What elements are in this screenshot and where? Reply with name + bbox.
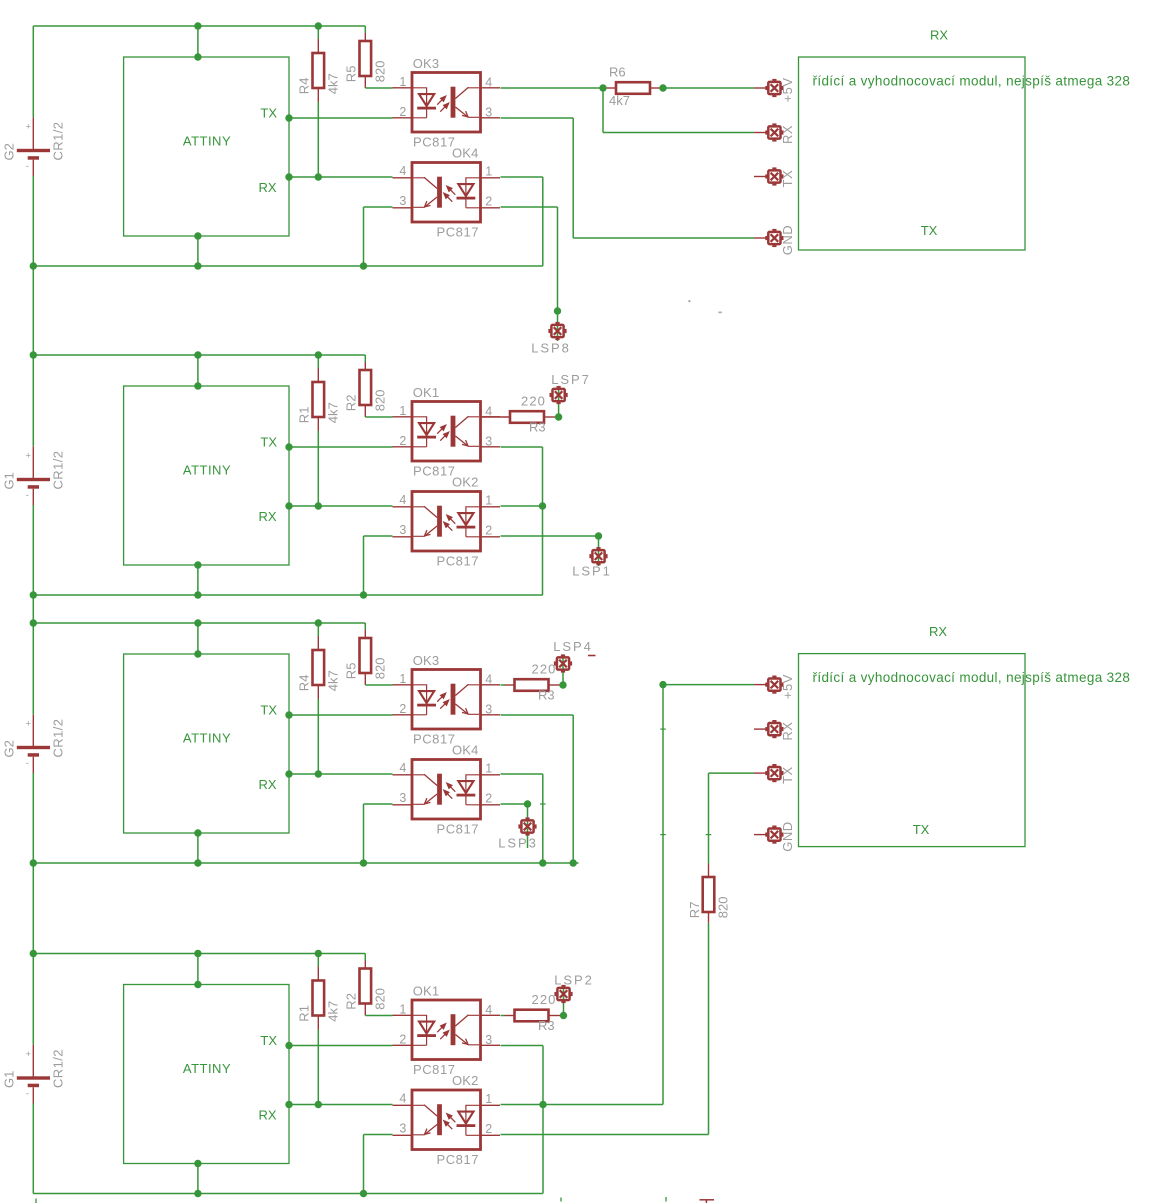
svg-text:ATTINY: ATTINY xyxy=(183,731,231,746)
svg-text:4k7: 4k7 xyxy=(325,402,340,423)
svg-text:820: 820 xyxy=(372,60,387,82)
svg-text:CR1/2: CR1/2 xyxy=(51,451,66,490)
svg-text:+: + xyxy=(26,1049,32,1060)
svg-text:RX: RX xyxy=(258,180,276,195)
svg-text:4: 4 xyxy=(485,672,492,686)
svg-text:3: 3 xyxy=(485,1033,492,1047)
svg-text:řídící a vyhodnocovací modul,: řídící a vyhodnocovací modul, nejspíš at… xyxy=(813,670,1131,685)
svg-text:1: 1 xyxy=(399,75,406,89)
svg-text:220: 220 xyxy=(532,662,557,677)
svg-text:TX: TX xyxy=(260,1033,277,1048)
svg-text:PC817: PC817 xyxy=(413,135,456,150)
svg-text:R2: R2 xyxy=(344,993,359,1010)
svg-text:R5: R5 xyxy=(344,663,359,680)
svg-text:R3: R3 xyxy=(538,1018,555,1033)
svg-text:RX: RX xyxy=(930,28,948,43)
svg-text:2: 2 xyxy=(485,523,492,537)
svg-text:+: + xyxy=(26,451,32,462)
svg-text:4: 4 xyxy=(399,1092,406,1106)
svg-text:820: 820 xyxy=(716,896,731,918)
svg-text:2: 2 xyxy=(485,1122,492,1136)
svg-text:OK3: OK3 xyxy=(413,56,440,71)
svg-text:TX: TX xyxy=(260,703,277,718)
svg-text:2: 2 xyxy=(485,791,492,805)
svg-text:3: 3 xyxy=(399,194,406,208)
svg-text:OK3: OK3 xyxy=(413,653,440,668)
svg-text:RX: RX xyxy=(258,777,276,792)
svg-text:RX: RX xyxy=(929,624,947,639)
svg-text:1: 1 xyxy=(485,493,492,507)
svg-text:R3: R3 xyxy=(529,420,546,435)
svg-text:PC817: PC817 xyxy=(437,822,480,837)
svg-text:820: 820 xyxy=(372,657,387,679)
svg-text:+5V: +5V xyxy=(780,674,795,699)
svg-text:4: 4 xyxy=(485,75,492,89)
svg-text:-: - xyxy=(26,758,29,769)
svg-text:3: 3 xyxy=(399,523,406,537)
svg-text:TX: TX xyxy=(260,435,277,450)
svg-text:R5: R5 xyxy=(344,66,359,83)
svg-text:-: - xyxy=(26,1089,29,1100)
svg-text:3: 3 xyxy=(485,702,492,716)
svg-text:G2: G2 xyxy=(2,143,17,160)
svg-text:GND: GND xyxy=(780,821,795,851)
svg-text:OK1: OK1 xyxy=(413,385,440,400)
svg-text:OK1: OK1 xyxy=(413,983,440,998)
svg-text:2: 2 xyxy=(399,1033,406,1047)
svg-text:řídící a vyhodnocovací modul,: řídící a vyhodnocovací modul, nejspíš at… xyxy=(813,74,1131,89)
svg-text:4: 4 xyxy=(399,761,406,775)
svg-text:GND: GND xyxy=(780,225,795,255)
svg-text:OK4: OK4 xyxy=(452,743,479,758)
svg-text:RX: RX xyxy=(258,1108,276,1123)
svg-text:OK4: OK4 xyxy=(452,146,479,161)
svg-text:1: 1 xyxy=(399,1003,406,1017)
svg-text:PC817: PC817 xyxy=(437,554,480,569)
svg-text:4k7: 4k7 xyxy=(325,670,340,691)
svg-text:RX: RX xyxy=(780,722,795,741)
svg-text:CR1/2: CR1/2 xyxy=(51,1049,66,1088)
svg-text:ATTINY: ATTINY xyxy=(183,1061,231,1076)
svg-text:R6: R6 xyxy=(609,65,626,80)
svg-text:TX: TX xyxy=(780,170,795,188)
svg-text:+: + xyxy=(26,719,32,730)
svg-text:4k7: 4k7 xyxy=(325,1001,340,1022)
svg-text:RX: RX xyxy=(780,125,795,144)
svg-text:ATTINY: ATTINY xyxy=(183,134,231,149)
svg-text:G1: G1 xyxy=(2,1071,17,1088)
svg-text:+5V: +5V xyxy=(780,78,795,103)
svg-text:3: 3 xyxy=(399,791,406,805)
svg-text:4: 4 xyxy=(399,493,406,507)
svg-text:LSP7: LSP7 xyxy=(551,372,590,387)
svg-text:LSP8: LSP8 xyxy=(531,341,570,356)
svg-text:R4: R4 xyxy=(297,675,312,692)
svg-text:OK2: OK2 xyxy=(452,475,479,490)
svg-text:1: 1 xyxy=(485,761,492,775)
svg-text:CR1/2: CR1/2 xyxy=(51,719,66,758)
svg-text:LSP4: LSP4 xyxy=(553,639,592,654)
svg-text:3: 3 xyxy=(485,434,492,448)
svg-text:G1: G1 xyxy=(2,472,17,489)
svg-text:-: - xyxy=(26,490,29,501)
svg-text:PC817: PC817 xyxy=(413,732,456,747)
svg-text:2: 2 xyxy=(485,194,492,208)
svg-text:-: - xyxy=(26,161,29,172)
svg-text:PC817: PC817 xyxy=(413,1062,456,1077)
svg-text:R2: R2 xyxy=(344,395,359,412)
svg-text:R4: R4 xyxy=(297,78,312,95)
svg-text:1: 1 xyxy=(485,1092,492,1106)
svg-text:3: 3 xyxy=(485,105,492,119)
svg-text:R3: R3 xyxy=(538,688,555,703)
svg-text:TX: TX xyxy=(913,822,930,837)
svg-text:ATTINY: ATTINY xyxy=(183,463,231,478)
svg-text:220: 220 xyxy=(521,394,546,409)
svg-text:4k7: 4k7 xyxy=(609,93,630,108)
svg-text:G2: G2 xyxy=(2,740,17,757)
svg-text:CR1/2: CR1/2 xyxy=(51,122,66,161)
svg-text:PC817: PC817 xyxy=(437,1152,480,1167)
svg-text:PC817: PC817 xyxy=(413,464,456,479)
svg-text:820: 820 xyxy=(372,988,387,1010)
svg-text:LSP1: LSP1 xyxy=(572,564,611,579)
svg-text:OK2: OK2 xyxy=(452,1073,479,1088)
svg-text:PC817: PC817 xyxy=(437,225,480,240)
svg-text:4: 4 xyxy=(485,1003,492,1017)
svg-text:LSP3: LSP3 xyxy=(498,836,537,851)
svg-text:2: 2 xyxy=(399,434,406,448)
svg-text:RX: RX xyxy=(258,509,276,524)
svg-text:820: 820 xyxy=(372,389,387,411)
svg-text:1: 1 xyxy=(485,164,492,178)
svg-text:R7: R7 xyxy=(687,902,702,919)
svg-text:R1: R1 xyxy=(297,407,312,424)
svg-text:TX: TX xyxy=(260,106,277,121)
svg-text:4: 4 xyxy=(399,164,406,178)
svg-text:1: 1 xyxy=(399,672,406,686)
svg-text:TX: TX xyxy=(921,223,938,238)
svg-text:2: 2 xyxy=(399,105,406,119)
svg-text:TX: TX xyxy=(780,766,795,784)
svg-text:3: 3 xyxy=(399,1122,406,1136)
svg-text:1: 1 xyxy=(399,404,406,418)
svg-text:4k7: 4k7 xyxy=(325,73,340,94)
svg-text:R1: R1 xyxy=(297,1005,312,1022)
svg-text:+: + xyxy=(26,122,32,133)
svg-text:LSP2: LSP2 xyxy=(554,973,593,988)
svg-text:2: 2 xyxy=(399,702,406,716)
svg-text:220: 220 xyxy=(532,992,557,1007)
